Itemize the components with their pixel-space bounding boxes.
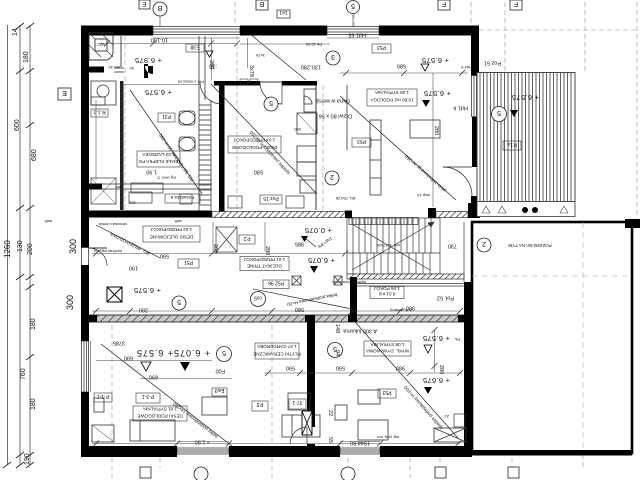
- svg-text:1e1: 1e1: [279, 9, 288, 15]
- interior vertical wall small: [350, 277, 357, 315]
- svg-text:3: 3: [331, 53, 335, 60]
- svg-text:1944.80: 1944.80: [350, 440, 370, 446]
- bottom wall black 2: [229, 446, 340, 457]
- right wall window: [472, 76, 479, 117]
- svg-text:590: 590: [254, 169, 263, 175]
- svg-text:P-3-1: P-3-1: [142, 393, 154, 399]
- svg-text:300: 300: [68, 239, 78, 254]
- svg-text:1.05 SYPIALNIA: 1.05 SYPIALNIA: [374, 90, 409, 95]
- svg-text:760: 760: [20, 368, 27, 380]
- svg-text:Hd1 6: Hd1 6: [453, 105, 468, 111]
- svg-text:+ 6.675: + 6.675: [423, 376, 450, 385]
- window sills: [91, 38, 381, 442]
- svg-text:Ew3: Ew3: [214, 387, 224, 393]
- svg-text:1.02 PRZEDPOKÓJ: 1.02 PRZEDPOKÓJ: [151, 227, 192, 233]
- svg-text:190: 190: [129, 265, 138, 271]
- svg-text:co5: co5: [254, 295, 262, 301]
- svg-text:40: 40: [129, 66, 134, 71]
- svg-text:P.2: P.2: [243, 235, 250, 241]
- lower-left room furniture: bed: [94, 397, 227, 441]
- left wall window lower: [82, 341, 89, 392]
- svg-text:Poł. 52: Poł. 52: [437, 295, 454, 301]
- svg-text:1.07 GARDEROBA: 1.07 GARDEROBA: [256, 344, 297, 349]
- svg-text:200: 200: [27, 243, 34, 255]
- svg-text:1.08 SYPIALNIA: 1.08 SYPIALNIA: [370, 342, 405, 347]
- svg-text:1.03 ŁAZIENKA: 1.03 ŁAZIENKA: [141, 152, 174, 157]
- svg-text:1.90: 1.90: [146, 169, 157, 175]
- svg-text:sarl: sarl: [116, 184, 123, 189]
- lower right wall: [464, 282, 472, 451]
- P52 96 box: [263, 280, 289, 289]
- svg-text:590: 590: [336, 365, 345, 371]
- svg-text:130: 130: [17, 240, 24, 252]
- X shaft corridor: [216, 227, 237, 252]
- svg-text:5: 5: [351, 2, 355, 9]
- grid marker B box: [256, 0, 268, 10]
- level triangles: [180, 100, 518, 394]
- svg-text:180: 180: [30, 318, 37, 330]
- svg-text:+ 6.575: + 6.575: [424, 89, 451, 98]
- corridor top wall (bottom of upper block): [89, 211, 212, 218]
- svg-text:22: 22: [444, 414, 449, 419]
- svg-text:wg obm. 5: wg obm. 5: [157, 176, 176, 181]
- svg-text:+ 6.575: + 6.575: [145, 88, 172, 97]
- svg-text:Poz 51: Poz 51: [484, 60, 501, 66]
- svg-text:1.04 PRZEDPOKÓJ: 1.04 PRZEDPOKÓJ: [234, 138, 275, 144]
- living room bottom cabinets: [228, 196, 304, 208]
- tick row under top window1: [100, 41, 240, 47]
- interior dimension chains: [92, 38, 468, 444]
- svg-text:10-100: 10-100: [151, 37, 168, 43]
- living room top wall: [214, 81, 260, 86]
- svg-text:izol. 4x17x28: izol. 4x17x28: [376, 243, 400, 248]
- right wall upper black: [471, 26, 479, 76]
- svg-text:94: 94: [334, 350, 340, 356]
- svg-text:Pb 10.00: Pb 10.00: [305, 42, 322, 47]
- right wall pier: [471, 196, 480, 218]
- chimney hatched block: [302, 411, 312, 443]
- svg-text:P31: P31: [162, 113, 171, 119]
- bottom wall window 1: [177, 448, 229, 454]
- svg-text:580: 580: [397, 63, 406, 69]
- interior door arcs: [89, 82, 307, 444]
- grid marker F box top 1: [438, 0, 450, 10]
- grid marker E box top: [139, 0, 150, 9]
- small label box 1e1: [277, 9, 290, 18]
- svg-text:2: 2: [330, 173, 334, 180]
- bedroom right bed: [410, 120, 440, 138]
- left dimension lines: [8, 25, 31, 465]
- svg-text:550: 550: [294, 127, 301, 132]
- svg-text:1.06 POKÓJ: 1.06 POKÓJ: [374, 286, 400, 292]
- bottom wall window 2: [340, 448, 380, 454]
- hall wall y183: [89, 184, 102, 190]
- svg-text:ramowa u belka: ramowa u belka: [98, 222, 127, 227]
- svg-text:+ 6.575: + 6.575: [137, 348, 173, 358]
- big 300 wall labels: [65, 239, 78, 310]
- svg-text:+ 6.075: + 6.075: [308, 256, 335, 265]
- svg-text:wg. proj. ind.: wg. proj. ind.: [376, 435, 399, 440]
- svg-text:690: 690: [124, 355, 133, 361]
- hatched band right of stairs: [436, 212, 468, 218]
- room 1.06 label box: [370, 286, 404, 299]
- hatched wall band mid: [212, 212, 347, 218]
- svg-text:Okna w wersji: Okna w wersji: [316, 98, 350, 104]
- bottom wall black 3: [380, 446, 472, 457]
- vertical dims: [208, 60, 444, 443]
- svg-text:1260: 1260: [3, 240, 12, 258]
- left wall: [81, 26, 89, 248]
- svg-text:BIAŁE KLEPKA PG: BIAŁE KLEPKA PG: [138, 159, 178, 164]
- left wall door opening: [82, 248, 89, 266]
- svg-text:280: 280: [208, 60, 214, 69]
- svg-text:wsp 15: wsp 15: [417, 193, 430, 198]
- svg-text:1.01 PRZEDPOKÓJ: 1.01 PRZEDPOKÓJ: [244, 257, 285, 263]
- top wall window 1: [153, 27, 240, 35]
- balcony doorstep bedroom right bottom: [349, 218, 418, 225]
- circle 2 marker lower right: [477, 238, 491, 252]
- svg-text:POZIOM 5m NA TYM: POZIOM 5m NA TYM: [508, 243, 551, 248]
- top wall window 2: [327, 27, 379, 35]
- svg-text:WYKŁ. DYWANOWA: WYKŁ. DYWANOWA: [365, 349, 409, 354]
- stairs bottom hatched band: [347, 274, 464, 279]
- svg-text:E: E: [62, 89, 67, 96]
- svg-text:Pvc v masa 10: Pvc v masa 10: [177, 80, 204, 85]
- svg-text:16.50 m2 PODŁOGA: 16.50 m2 PODŁOGA: [369, 98, 413, 103]
- bathroom washer: [91, 81, 116, 105]
- svg-text:B: B: [259, 0, 264, 7]
- right wall door opening + arc: [443, 167, 472, 196]
- room 1.06 top wall: [357, 284, 464, 287]
- svg-text:F: F: [442, 0, 446, 7]
- svg-text:153: 153: [129, 201, 136, 206]
- svg-text:P51: P51: [184, 259, 193, 265]
- svg-text:180: 180: [23, 51, 30, 63]
- svg-text:+ 0.075: + 0.075: [305, 226, 332, 235]
- svg-text:B: B: [157, 4, 162, 11]
- svg-text:IB1 40: IB1 40: [108, 65, 120, 70]
- wall piers at junctions: [345, 211, 352, 219]
- svg-text:180: 180: [30, 398, 37, 410]
- court bottom edge thick: [472, 450, 632, 456]
- svg-text:E38: E38: [190, 44, 199, 50]
- middle separation wall: [89, 315, 472, 322]
- svg-text:1.01 SYPIALNIA: 1.01 SYPIALNIA: [142, 407, 177, 412]
- svg-text:Pb: Pb: [454, 337, 460, 342]
- svg-text:130-280: 130-280: [301, 64, 321, 70]
- svg-text:5: 5: [497, 109, 501, 116]
- svg-text:148: 148: [334, 324, 340, 333]
- grid marker E box left: [58, 88, 71, 100]
- door half-disc filled: [144, 64, 153, 78]
- svg-text:985: 985: [295, 241, 304, 247]
- svg-text:8.01 m2: 8.01 m2: [378, 292, 395, 297]
- svg-text:14: 14: [12, 28, 19, 36]
- svg-text:22: 22: [327, 410, 333, 416]
- svg-text:+ 6.975: + 6.975: [135, 56, 162, 65]
- terrace bottom band: [477, 202, 575, 217]
- top wall black segment right: [379, 26, 475, 36]
- black cross square mid-left room: [107, 287, 122, 302]
- stair top pier: [428, 208, 436, 218]
- svg-text:P52 96: P52 96: [268, 280, 284, 286]
- svg-text:Drzwi 80 x 56: Drzwi 80 x 56: [319, 113, 352, 119]
- dimension numbers (rotated): [3, 28, 38, 465]
- svg-text:590: 590: [286, 365, 295, 371]
- svg-text:300: 300: [65, 295, 75, 310]
- kitchen cabinets along living right wall: [297, 89, 317, 193]
- svg-text:980: 980: [396, 365, 405, 371]
- living room left wall: [219, 84, 225, 213]
- svg-text:280: 280: [433, 126, 439, 135]
- svg-text:P53: P53: [357, 138, 366, 144]
- svg-text:2: 2: [482, 240, 486, 247]
- svg-text:R-1-1: R-1-1: [93, 109, 106, 115]
- svg-text:190: 190: [24, 453, 31, 465]
- svg-text:280: 280: [139, 307, 148, 313]
- svg-text:+ 6.575: + 6.575: [134, 286, 161, 295]
- svg-text:sufit: sufit: [174, 219, 182, 224]
- svg-text:DESKI PODŁOGOWE: DESKI PODŁOGOWE: [232, 145, 278, 150]
- svg-text:E: E: [142, 0, 147, 7]
- svg-text:DESKI OLEJOWANE: DESKI OLEJOWANE: [150, 235, 194, 240]
- grid marker B circle top: [153, 2, 167, 30]
- corridor info box 1.01: [240, 257, 289, 271]
- svg-text:PŁYTKI CERAMICZNE: PŁYTKI CERAMICZNE: [253, 352, 300, 357]
- bottom wall black 1: [81, 446, 177, 457]
- top wall black segment middle: [240, 26, 327, 36]
- dimension ticks: [3, 23, 34, 468]
- svg-text:55: 55: [327, 437, 333, 443]
- svg-text:P.1a: P.1a: [507, 141, 517, 147]
- living room right wall thin: [315, 85, 317, 210]
- bath items right: [179, 111, 195, 151]
- svg-text:5: 5: [177, 298, 181, 305]
- svg-text:P-1-1: P-1-1: [97, 393, 109, 399]
- slope mark: [305, 238, 316, 247]
- bathroom shower top-left: [89, 33, 113, 60]
- right wall middle black: [472, 117, 478, 167]
- svg-text:5: 5: [222, 349, 226, 356]
- bottom-left corner furniture: [92, 425, 114, 442]
- bathroom wall vertical thin: [120, 36, 122, 67]
- bottom grid markers: [140, 467, 519, 480]
- svg-text:3x78: 3x78: [256, 53, 265, 58]
- svg-text:680: 680: [31, 149, 38, 161]
- svg-text:+ 6.575: + 6.575: [512, 93, 539, 102]
- svg-text:3785: 3785: [113, 340, 125, 346]
- svg-text:Poz 15: Poz 15: [263, 195, 279, 201]
- svg-text:F00: F00: [216, 368, 225, 374]
- svg-text:Hd4 6: Hd4 6: [461, 65, 472, 70]
- svg-text:+ 6.075: + 6.075: [174, 348, 210, 358]
- interior vertical wall lower: [307, 322, 315, 427]
- belka annotation shallow line: [253, 289, 352, 309]
- lower-mid room furniture: [282, 390, 388, 440]
- svg-text:Posadzka 6: Posadzka 6: [170, 195, 194, 200]
- svg-text:5: 5: [269, 99, 273, 106]
- bathroom wall horizontal: [87, 67, 104, 73]
- svg-text:DESKI PODŁOGOWE: DESKI PODŁOGOWE: [137, 414, 183, 419]
- duct column between rooms: [199, 36, 211, 213]
- svg-text:A 300 lukarna: A 300 lukarna: [342, 328, 377, 334]
- svg-text:F: F: [514, 0, 518, 7]
- wall pier right end: [468, 203, 476, 218]
- living room door arc: [260, 82, 282, 104]
- svg-text:WC: WC: [97, 42, 105, 47]
- svg-text:P53: P53: [377, 44, 386, 50]
- sill seat rects upper room: [240, 79, 248, 84]
- svg-text:sufit: sufit: [44, 219, 52, 224]
- svg-text:Hd1 65: Hd1 65: [348, 32, 366, 38]
- scattered small annotation texts: [44, 42, 472, 440]
- svg-text:730: 730: [448, 243, 457, 249]
- svg-text:P53: P53: [382, 389, 391, 395]
- svg-text:P.5: P.5: [256, 401, 263, 407]
- column X boxes: [292, 276, 342, 285]
- svg-text:kuchnia wg proj.: kuchnia wg proj.: [93, 249, 122, 254]
- svg-text:+ 6.575: + 6.575: [423, 334, 450, 343]
- grid marker F box top 2: [510, 0, 522, 10]
- X-box bottom right corner: [434, 428, 466, 442]
- svg-text:600: 600: [14, 119, 21, 131]
- svg-text:3x78: 3x78: [248, 65, 254, 77]
- court corner notch: [625, 219, 640, 228]
- svg-text:580: 580: [295, 306, 304, 312]
- kitchen wall thin: [346, 85, 348, 150]
- stairs arrows: [352, 222, 434, 270]
- svg-text:wylewka betonowa: wylewka betonowa: [332, 280, 366, 285]
- top wall black segment left: [82, 26, 153, 36]
- svg-text:JEL 70/128: JEL 70/128: [335, 196, 356, 201]
- small table left room: [91, 178, 192, 204]
- svg-text:37-1: 37-1: [292, 399, 302, 405]
- svg-text:A-A przekrój: A-A przekrój: [390, 308, 412, 313]
- grid marker 5 circle top: [347, 1, 360, 31]
- wardrobe column bedroom right: [370, 120, 381, 195]
- svg-text:OLEJKAT TRINE: OLEJKAT TRINE: [247, 264, 282, 269]
